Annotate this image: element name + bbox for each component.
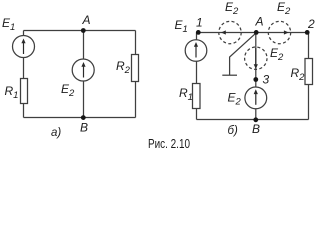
svg-text:2: 2 bbox=[307, 17, 315, 31]
svg-text:б): б) bbox=[228, 125, 238, 137]
svg-text:Рис. 2.10: Рис. 2.10 bbox=[148, 136, 190, 151]
svg-text:B: B bbox=[252, 122, 260, 136]
svg-text:а): а) bbox=[51, 127, 61, 139]
svg-text:3: 3 bbox=[263, 73, 270, 87]
svg-text:A: A bbox=[82, 13, 91, 27]
svg-text:B: B bbox=[80, 121, 88, 135]
svg-text:A: A bbox=[255, 15, 264, 29]
svg-text:1: 1 bbox=[196, 16, 203, 30]
